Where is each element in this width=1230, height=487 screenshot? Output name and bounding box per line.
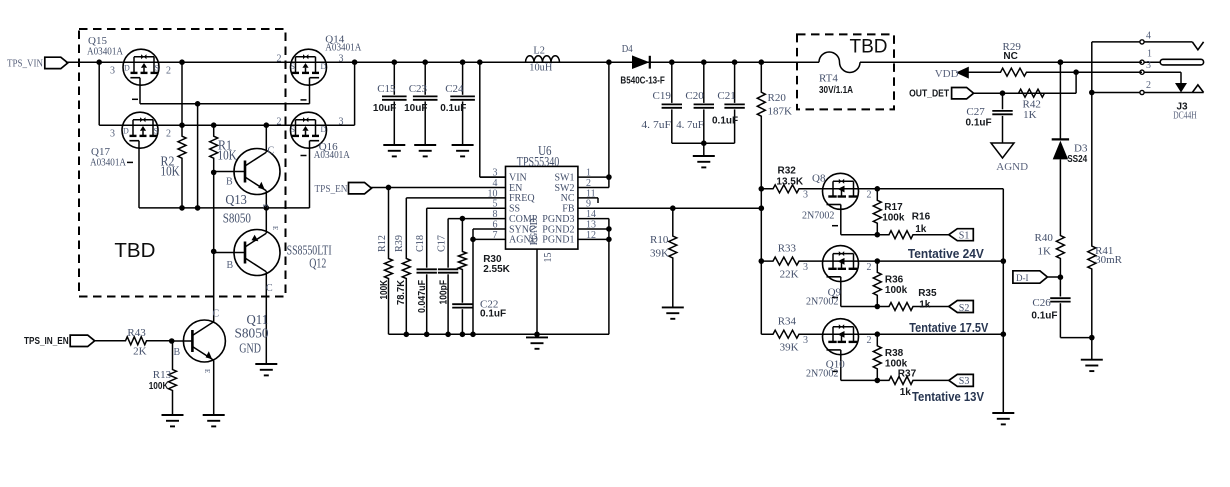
svg-text:10K: 10K [218, 148, 237, 163]
svg-text:C21: C21 [717, 90, 735, 102]
svg-text:10uH: 10uH [529, 61, 552, 73]
svg-text:13.5K: 13.5K [776, 177, 803, 188]
svg-text:R13: R13 [153, 369, 172, 381]
svg-text:NC: NC [1003, 51, 1017, 62]
svg-text:OUT_DET: OUT_DET [909, 89, 949, 100]
svg-text:C: C [268, 146, 275, 157]
svg-text:R34: R34 [778, 316, 797, 328]
svg-text:E: E [271, 226, 279, 230]
svg-text:AGND: AGND [996, 161, 1028, 173]
svg-text:R17: R17 [884, 202, 903, 213]
svg-text:R38: R38 [885, 348, 904, 359]
svg-text:3: 3 [110, 66, 115, 77]
svg-text:VDD: VDD [935, 68, 959, 80]
svg-text:C19: C19 [653, 90, 672, 102]
svg-text:S2: S2 [959, 303, 970, 314]
svg-text:C15: C15 [377, 83, 396, 95]
svg-text:D: D [124, 64, 130, 73]
svg-text:B: B [226, 177, 233, 188]
svg-text:1k: 1k [900, 387, 912, 398]
svg-text:VIN: VIN [509, 173, 527, 184]
svg-text:A03401A: A03401A [314, 149, 350, 161]
svg-text:RT4: RT4 [819, 73, 838, 85]
svg-text:SW1: SW1 [555, 173, 575, 184]
svg-text:4. 7uF: 4. 7uF [641, 119, 671, 131]
svg-text:2: 2 [277, 117, 282, 128]
svg-text:B540C-13-F: B540C-13-F [620, 76, 664, 87]
svg-text:S1: S1 [959, 231, 970, 242]
svg-text:TBD: TBD [850, 37, 888, 58]
svg-text:R33: R33 [778, 243, 797, 255]
svg-text:0.047uF: 0.047uF [417, 280, 428, 313]
svg-text:100K: 100K [149, 381, 169, 392]
svg-text:TPS_VIN: TPS_VIN [7, 58, 43, 70]
svg-text:C27: C27 [966, 106, 985, 118]
svg-text:S3: S3 [959, 376, 970, 387]
svg-text:Tentative 13V: Tentative 13V [912, 389, 984, 404]
svg-text:C23: C23 [409, 83, 428, 95]
svg-text:C: C [213, 309, 220, 320]
svg-text:3: 3 [110, 129, 115, 140]
svg-text:R37: R37 [898, 369, 917, 380]
svg-text:PGND2: PGND2 [542, 224, 574, 235]
svg-text:R16: R16 [912, 212, 931, 223]
svg-text:A03401A: A03401A [87, 46, 123, 58]
svg-text:FREQ: FREQ [509, 193, 535, 204]
svg-text:B: B [174, 347, 181, 358]
svg-text:100K: 100K [379, 279, 390, 299]
svg-text:GND: GND [239, 341, 261, 356]
svg-text:0.1uF: 0.1uF [712, 116, 738, 127]
svg-text:2: 2 [1146, 80, 1151, 91]
svg-text:D4: D4 [622, 43, 633, 55]
svg-text:R40: R40 [1035, 232, 1054, 244]
svg-text:L2: L2 [533, 45, 545, 57]
svg-text:4: 4 [1146, 31, 1151, 42]
svg-text:2N7002: 2N7002 [802, 209, 834, 221]
svg-text:D: D [321, 62, 327, 71]
svg-text:39K: 39K [650, 248, 669, 260]
svg-text:3: 3 [803, 190, 808, 201]
svg-text:3: 3 [339, 54, 344, 65]
svg-text:C: C [266, 283, 273, 294]
svg-text:C24: C24 [445, 83, 464, 95]
svg-text:S8050: S8050 [223, 210, 251, 225]
svg-text:D: D [321, 125, 327, 134]
svg-text:2: 2 [166, 129, 171, 140]
svg-text:S: S [155, 64, 159, 73]
svg-text:Q8: Q8 [812, 172, 826, 184]
svg-text:E: E [261, 204, 269, 208]
svg-text:FB: FB [562, 204, 575, 215]
svg-text:10K: 10K [161, 163, 180, 178]
svg-text:4. 7uF: 4. 7uF [676, 119, 704, 131]
svg-text:EN: EN [509, 183, 522, 194]
svg-text:0.1uF: 0.1uF [1031, 310, 1057, 321]
svg-text:1k: 1k [919, 299, 931, 310]
svg-text:S: S [291, 62, 295, 71]
svg-text:3: 3 [803, 335, 808, 346]
svg-text:2N7002: 2N7002 [806, 296, 838, 308]
svg-text:30mR: 30mR [1095, 254, 1123, 266]
svg-text:E: E [203, 369, 211, 373]
svg-text:TBD: TBD [114, 239, 155, 262]
svg-text:0.1uF: 0.1uF [440, 103, 466, 114]
svg-text:TPS_EN: TPS_EN [315, 183, 348, 195]
svg-text:1K: 1K [1023, 109, 1037, 121]
svg-text:Tentative 24V: Tentative 24V [908, 246, 984, 261]
svg-text:SW2: SW2 [555, 183, 575, 194]
svg-text:Q13: Q13 [225, 192, 247, 207]
svg-text:2: 2 [277, 54, 282, 65]
svg-text:PGND: PGND [529, 218, 540, 245]
svg-text:10uF: 10uF [404, 103, 427, 114]
svg-text:100k: 100k [882, 213, 905, 224]
svg-text:PGND3: PGND3 [542, 214, 574, 225]
svg-text:TPS_IN_EN: TPS_IN_EN [24, 336, 69, 347]
svg-text:D-I: D-I [1016, 273, 1029, 283]
svg-text:SS: SS [509, 204, 520, 215]
svg-text:2K: 2K [133, 346, 147, 358]
svg-text:S: S [291, 125, 295, 134]
svg-text:0.1uF: 0.1uF [480, 308, 506, 319]
svg-text:10uF: 10uF [373, 103, 396, 114]
svg-text:B: B [227, 260, 234, 271]
svg-text:30V/1.1A: 30V/1.1A [819, 85, 853, 96]
svg-text:2: 2 [867, 335, 872, 346]
svg-text:NC: NC [561, 193, 575, 204]
svg-text:100pF: 100pF [438, 280, 449, 305]
svg-text:3: 3 [803, 262, 808, 273]
svg-text:187K: 187K [768, 106, 793, 118]
svg-text:100k: 100k [885, 285, 908, 296]
svg-text:1k: 1k [915, 224, 927, 235]
svg-text:1: 1 [1147, 49, 1152, 60]
svg-text:DC44H: DC44H [1173, 110, 1197, 122]
svg-text:39K: 39K [780, 342, 799, 354]
svg-text:C26: C26 [1032, 297, 1051, 309]
svg-text:2.55K: 2.55K [483, 264, 510, 275]
svg-text:R12: R12 [376, 235, 388, 252]
svg-text:R43: R43 [127, 327, 146, 339]
svg-text:R35: R35 [918, 288, 937, 299]
svg-text:S8050: S8050 [235, 326, 269, 341]
svg-text:TPS55340: TPS55340 [517, 154, 560, 169]
svg-text:SS24: SS24 [1067, 154, 1087, 165]
svg-text:3: 3 [1146, 60, 1151, 71]
svg-text:2: 2 [867, 190, 872, 201]
svg-text:Tentative 17.5V: Tentative 17.5V [909, 320, 988, 335]
svg-text:R20: R20 [768, 92, 787, 104]
svg-text:C17: C17 [436, 235, 448, 252]
svg-text:2: 2 [867, 262, 872, 273]
svg-text:15: 15 [543, 253, 554, 263]
svg-text:S: S [154, 127, 158, 136]
svg-text:1K: 1K [1038, 246, 1052, 258]
svg-text:3: 3 [339, 117, 344, 128]
svg-text:R10: R10 [650, 234, 669, 246]
svg-text:C18: C18 [414, 235, 426, 252]
svg-text:R39: R39 [393, 235, 405, 252]
svg-text:78.7K: 78.7K [396, 279, 407, 305]
svg-text:C20: C20 [685, 90, 704, 102]
svg-text:R32: R32 [778, 165, 797, 176]
svg-text:Q12: Q12 [309, 255, 326, 270]
svg-text:2N7002: 2N7002 [806, 368, 838, 380]
svg-text:0.1uF: 0.1uF [966, 118, 992, 129]
svg-text:2: 2 [166, 66, 171, 77]
svg-text:D: D [123, 127, 129, 136]
svg-text:D3: D3 [1074, 143, 1088, 155]
svg-text:22K: 22K [780, 269, 799, 281]
svg-text:PGND1: PGND1 [542, 235, 574, 246]
svg-text:A03401A: A03401A [325, 41, 361, 53]
svg-text:A03401A: A03401A [90, 157, 126, 169]
